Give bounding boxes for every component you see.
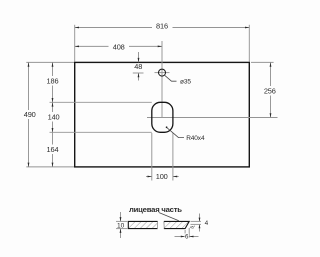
dim 490 xyxy=(24,62,36,166)
basin cutout R40x4 xyxy=(152,102,173,132)
faucet hole circle d35 xyxy=(159,69,166,76)
dim 4 xyxy=(199,214,209,232)
svg-text:лицевая часть: лицевая часть xyxy=(129,205,182,214)
dim 6 xyxy=(175,233,199,240)
svg-text:408: 408 xyxy=(113,42,125,51)
dim 186 xyxy=(47,62,59,102)
svg-text:45°: 45° xyxy=(190,226,196,230)
dim 256 xyxy=(264,62,276,117)
section right piece xyxy=(164,221,189,228)
svg-text:100: 100 xyxy=(156,172,168,181)
oval horizontal centerline / 256 extension xyxy=(147,117,278,119)
svg-text:186: 186 xyxy=(47,76,59,85)
label d35 leader xyxy=(165,75,192,85)
circle horizontal centerline xyxy=(155,72,170,74)
svg-text:140: 140 xyxy=(48,112,60,121)
dim 48 xyxy=(133,52,144,81)
dim 4 extension lines xyxy=(191,221,202,224)
svg-text:816: 816 xyxy=(156,22,168,31)
countertop outline xyxy=(75,62,250,166)
dim 186/140 oval extension lines xyxy=(50,102,152,132)
dim 490 extension lines xyxy=(26,62,74,166)
label R40x4 leader xyxy=(166,126,205,142)
section label litsevaya chast xyxy=(129,205,182,214)
section left piece xyxy=(128,221,157,228)
dim 164 xyxy=(47,132,59,167)
svg-text:48: 48 xyxy=(134,62,142,71)
svg-text:256: 256 xyxy=(264,87,276,96)
dim 100 extension lines xyxy=(152,133,173,181)
dim 10 extension lines xyxy=(116,221,127,228)
vertical centerline xyxy=(161,41,163,118)
svg-text:164: 164 xyxy=(47,145,59,154)
dim 816 extension lines xyxy=(75,25,250,62)
dim 140 xyxy=(48,102,60,132)
dim 816 xyxy=(75,22,250,31)
svg-text:490: 490 xyxy=(24,110,36,119)
dim 256 extension xyxy=(251,61,274,63)
svg-text:ø35: ø35 xyxy=(180,79,191,86)
dim 408 xyxy=(75,42,162,51)
chamfer angle 45 xyxy=(190,226,196,230)
dim 10 xyxy=(117,212,125,238)
svg-text:10: 10 xyxy=(117,223,125,230)
section leader xyxy=(159,213,179,221)
svg-text:R40x4: R40x4 xyxy=(186,135,205,142)
dim 6 extension lines xyxy=(185,228,189,238)
dim 100 xyxy=(146,172,179,181)
svg-text:4: 4 xyxy=(205,220,209,227)
